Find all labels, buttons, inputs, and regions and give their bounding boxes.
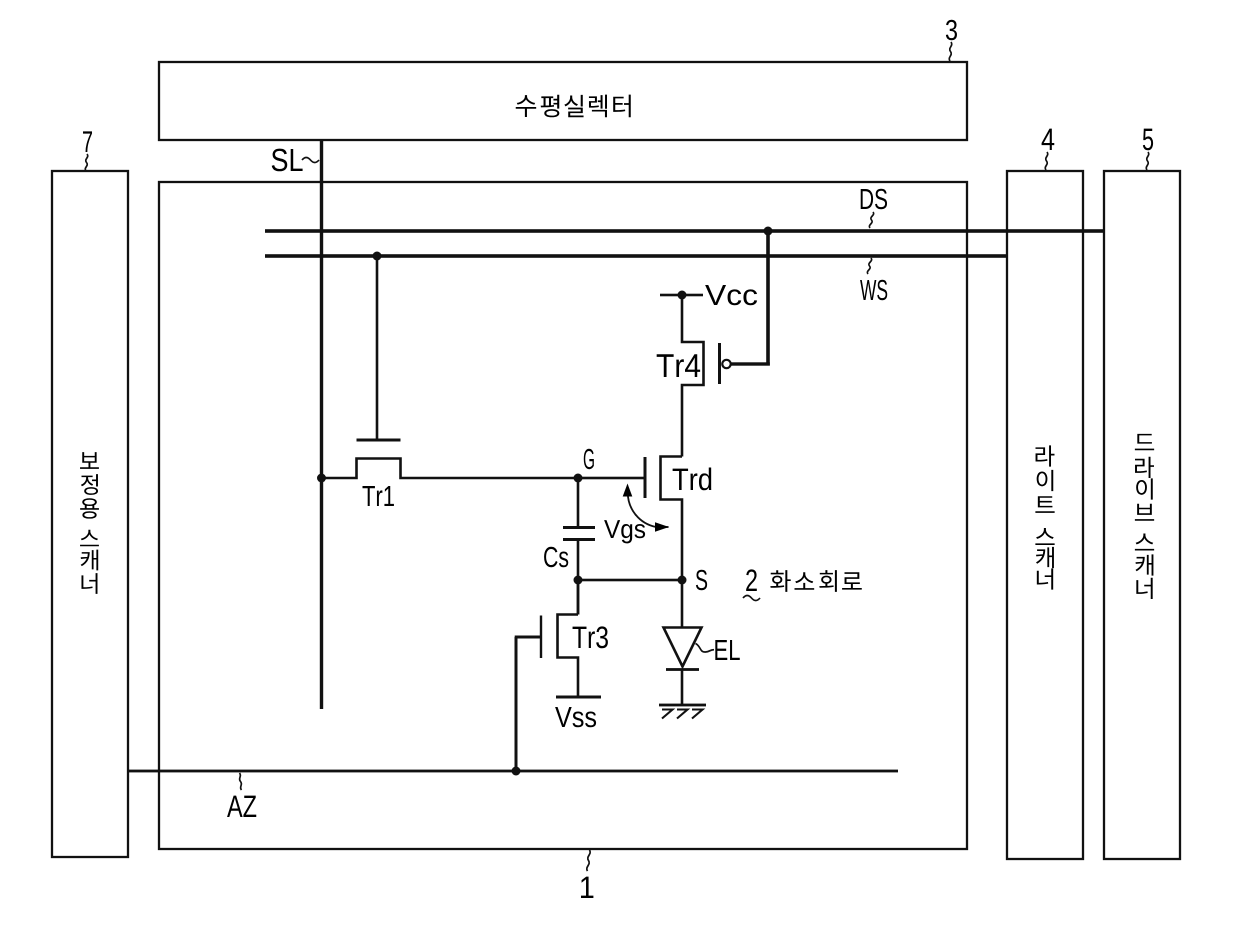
wire AZ auto-zero line horizontal — [128, 770, 898, 773]
wire DS drive scan line horizontal — [265, 229, 1104, 233]
transistor Tr3 channel with left bump — [558, 580, 579, 696]
leader squiggle for 1 — [587, 850, 590, 871]
EL diode cathode bar — [666, 668, 699, 671]
block 7 vertical text 보정용 스캐너 — [80, 452, 99, 594]
tilde leader for SL — [302, 158, 319, 163]
reference numeral 4 — [1042, 129, 1055, 150]
leader squiggle for 3 — [949, 42, 952, 61]
reference numeral 3 — [946, 20, 957, 41]
reference numeral 7 — [83, 131, 92, 152]
reference numeral 5 — [1143, 129, 1153, 151]
leader squiggle for 7 — [85, 154, 88, 171]
reference numeral 2 (pixel circuit) — [746, 569, 757, 591]
wire G to Trd gate — [578, 477, 644, 480]
label S — [696, 570, 707, 591]
tilde leader for EL — [696, 644, 715, 653]
EL diode triangle — [664, 628, 702, 667]
block 4 vertical text 라이트 스캐너 — [1035, 445, 1054, 589]
junction dot Tr3 gate on AZ — [512, 767, 521, 776]
Vcc supply stub wire — [660, 294, 703, 297]
Vgs curved arrow with arrowheads — [628, 492, 669, 527]
transistor Tr3 gate bar — [540, 616, 542, 659]
transistor Tr4 p-channel bubble — [722, 360, 730, 368]
wire from WS down to Tr1 gate — [376, 256, 379, 440]
label Vss — [555, 707, 596, 727]
label Vcc — [705, 285, 757, 305]
block 1: pixel area box — [159, 182, 967, 849]
node G junction dot — [574, 474, 583, 483]
label DS — [861, 189, 887, 210]
leader squiggle for 4 — [1045, 152, 1048, 170]
transistor Trd channel with left bump — [661, 457, 683, 581]
Vcc junction dot — [678, 291, 687, 300]
block 7: compensation scanner box (보정용 스캐너) — [52, 171, 128, 857]
junction dot DS to Tr4 gate branch — [764, 227, 773, 236]
label Vgs — [604, 520, 645, 543]
text 화소회로 (pixel circuit) — [770, 570, 861, 592]
leader squiggle for AZ — [240, 773, 242, 790]
junction dot SL to Tr1 — [317, 474, 326, 483]
junction dot WS to Tr1 gate branch — [373, 252, 382, 261]
wire WS write scan line horizontal — [265, 254, 1007, 258]
block 4: write scanner box (라이트 스캐너) — [1007, 171, 1083, 859]
leader squiggle for WS — [867, 258, 871, 274]
wire SL signal line vertical — [320, 141, 323, 709]
node S junction dot — [678, 576, 687, 585]
capacitor Cs bottom plate — [563, 538, 595, 541]
block 3 title text 수평실렉터 — [516, 95, 631, 118]
tilde under numeral 2 — [743, 596, 760, 601]
block 5 vertical text 드라이브 스캐너 — [1135, 434, 1154, 599]
ground symbol hatch marks — [662, 710, 703, 719]
transistor Tr4 gate bar — [718, 343, 721, 384]
capacitor Cs top plate — [563, 526, 595, 529]
wire Cs node to S node horizontal — [578, 579, 682, 582]
ground symbol bar — [659, 704, 706, 707]
label EL — [715, 640, 739, 660]
wire from DS down to Tr4 gate — [766, 231, 770, 366]
label Cs — [544, 547, 568, 568]
reference numeral 1 — [581, 877, 593, 898]
wire Cs bottom down to node — [577, 541, 580, 580]
wire down from Cs node to Tr3 — [577, 580, 580, 615]
block 3: horizontal selector box (수평실렉터) — [159, 62, 967, 140]
wire G node down to Cs — [577, 478, 580, 526]
label SL — [272, 149, 303, 172]
Vss terminal bar — [556, 696, 601, 699]
junction dot below Cs — [574, 576, 583, 585]
leader squiggle for DS — [869, 212, 873, 228]
label Trd — [673, 468, 712, 491]
transistor Tr1 gate bar — [357, 439, 401, 442]
label Tr3 — [573, 626, 608, 648]
wire Tr4 gate stub horizontal — [730, 362, 770, 365]
label Tr1 — [362, 486, 393, 506]
wire S node down to EL anode — [681, 580, 684, 628]
block 5: drive scanner box (드라이브 스캐너) — [1104, 171, 1180, 859]
transistor Tr4 channel with right bump — [682, 295, 704, 457]
wire Tr3 gate stub horizontal — [515, 636, 540, 639]
label Tr4 — [657, 354, 700, 377]
wire Tr3 gate down to AZ line — [515, 637, 518, 771]
leader squiggle for 5 — [1146, 152, 1149, 170]
label AZ — [227, 796, 256, 817]
label WS — [860, 280, 887, 301]
wire EL cathode to ground — [681, 670, 684, 706]
label G — [584, 449, 594, 470]
transistor Trd gate bar — [644, 457, 647, 498]
transistor Tr1 channel with bump — [322, 459, 579, 479]
